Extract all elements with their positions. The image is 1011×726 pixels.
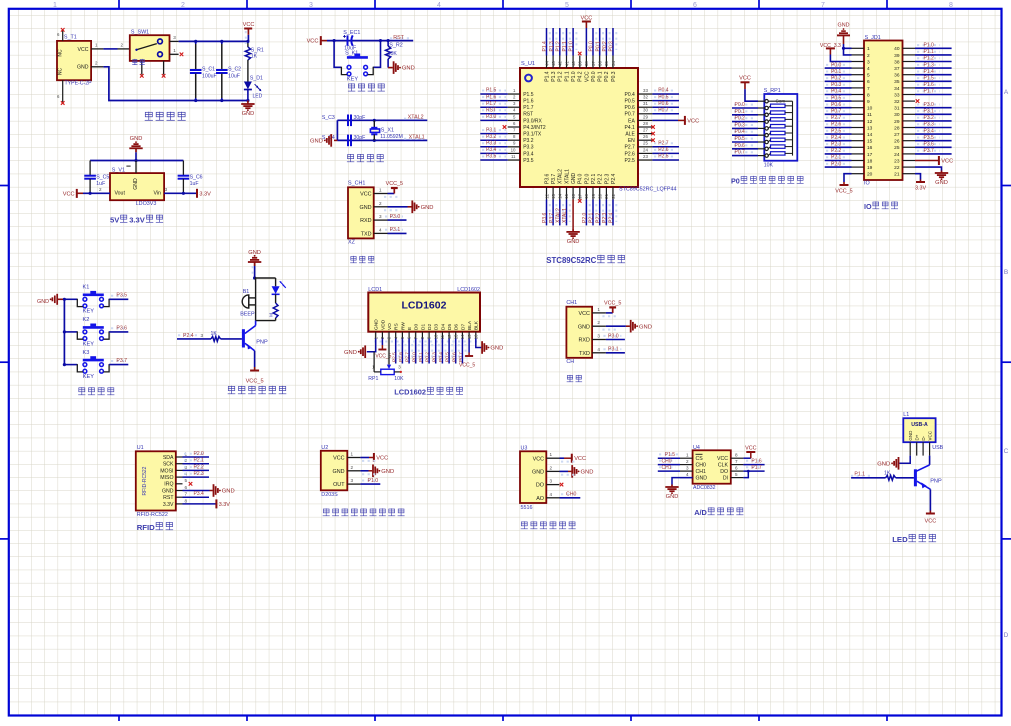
svg-text:24: 24 — [643, 147, 648, 152]
svg-text:P3.5: P3.5 — [924, 135, 935, 141]
svg-text:5: 5 — [867, 73, 870, 79]
svg-text:21: 21 — [894, 172, 900, 178]
svg-text:GND: GND — [310, 139, 323, 145]
svg-text:P3.1: P3.1 — [390, 227, 401, 233]
svg-text:P3.7: P3.7 — [551, 174, 557, 185]
svg-text:Vout: Vout — [115, 191, 126, 197]
svg-text:P3.3: P3.3 — [924, 122, 935, 128]
svg-text:5V: 5V — [110, 216, 120, 225]
svg-text:100uF: 100uF — [202, 73, 217, 79]
svg-text:38: 38 — [894, 59, 900, 65]
svg-text:GND: GND — [162, 488, 174, 494]
svg-text:10uF: 10uF — [228, 73, 240, 79]
svg-text:P2.3: P2.3 — [604, 174, 610, 185]
svg-text:4: 4 — [867, 66, 870, 72]
svg-text:K3: K3 — [83, 350, 90, 356]
svg-text:P1.1: P1.1 — [924, 49, 935, 55]
svg-text:P1.4: P1.4 — [924, 69, 935, 75]
svg-text:P0.7: P0.7 — [458, 352, 464, 362]
svg-text:VCC: VCC — [941, 159, 953, 165]
svg-text:2: 2 — [550, 465, 553, 470]
svg-text:P2.4: P2.4 — [611, 173, 617, 184]
svg-text:GND: GND — [935, 180, 948, 186]
svg-text:1uF: 1uF — [190, 181, 199, 187]
svg-text:GND: GND — [838, 22, 850, 28]
svg-text:10K: 10K — [394, 376, 404, 382]
svg-text:26: 26 — [894, 139, 900, 145]
svg-text:D0: D0 — [414, 324, 420, 330]
svg-text:P3.0: P3.0 — [924, 102, 935, 108]
svg-text:2: 2 — [95, 60, 98, 65]
svg-text:VCC: VCC — [243, 22, 255, 28]
svg-text:XTAL2: XTAL2 — [558, 169, 564, 184]
svg-text:P0.6: P0.6 — [625, 105, 636, 111]
svg-text:11: 11 — [440, 334, 445, 339]
svg-text:P3.2: P3.2 — [523, 138, 534, 144]
svg-text:7: 7 — [735, 459, 738, 464]
svg-text:P0.1: P0.1 — [595, 41, 601, 52]
svg-text:VCC: VCC — [579, 311, 590, 317]
svg-text:P3.5: P3.5 — [523, 158, 534, 164]
svg-text:2: 2 — [181, 2, 185, 9]
svg-text:BLK: BLK — [474, 320, 480, 330]
svg-text:VCC_5: VCC_5 — [604, 301, 621, 307]
svg-text:RW: RW — [400, 322, 406, 330]
svg-text:P2.0: P2.0 — [582, 212, 588, 223]
svg-text:31: 31 — [894, 106, 900, 112]
svg-text:D1: D1 — [420, 324, 426, 330]
svg-text:1K: 1K — [211, 331, 218, 337]
svg-text:7: 7 — [867, 86, 870, 92]
svg-text:A: A — [1004, 89, 1009, 96]
svg-text:18: 18 — [584, 193, 589, 198]
svg-text:P1.0: P1.0 — [368, 478, 379, 484]
svg-text:2: 2 — [597, 320, 600, 325]
svg-text:VCC_5: VCC_5 — [459, 363, 475, 369]
svg-text:CH: CH — [566, 359, 574, 365]
svg-text:P0.0: P0.0 — [831, 62, 842, 68]
svg-text:P1.6: P1.6 — [924, 82, 935, 88]
svg-text:VCC: VCC — [745, 446, 756, 452]
svg-text:IRQ: IRQ — [164, 482, 173, 488]
svg-text:32: 32 — [894, 99, 900, 105]
svg-text:4: 4 — [550, 492, 553, 497]
svg-text:38: 38 — [584, 61, 589, 66]
svg-text:P3.2: P3.2 — [924, 115, 935, 121]
svg-text:P1.6: P1.6 — [523, 99, 534, 105]
svg-text:GND: GND — [877, 461, 890, 467]
svg-text:NC: NC — [58, 68, 64, 76]
svg-text:P1.1: P1.1 — [564, 71, 570, 82]
svg-text:P2.4: P2.4 — [183, 333, 194, 339]
svg-text:3: 3 — [597, 334, 600, 339]
svg-text:P2.5: P2.5 — [658, 154, 669, 160]
svg-text:CS: CS — [696, 456, 704, 462]
svg-text:4: 4 — [379, 227, 382, 232]
svg-text:5: 5 — [185, 478, 188, 483]
svg-text:VCC_5: VCC_5 — [386, 181, 403, 187]
svg-text:CH1: CH1 — [696, 469, 706, 475]
svg-text:XTAL1: XTAL1 — [562, 208, 568, 223]
svg-text:8: 8 — [185, 498, 188, 503]
svg-text:P0.7: P0.7 — [658, 108, 669, 114]
svg-text:LED: LED — [892, 535, 908, 544]
svg-text:19: 19 — [867, 165, 873, 171]
svg-text:LDO3V3: LDO3V3 — [136, 201, 157, 207]
svg-text:P3.7: P3.7 — [549, 212, 555, 223]
svg-text:3.3V: 3.3V — [915, 185, 926, 191]
svg-text:VCC: VCC — [333, 456, 344, 462]
svg-text:7: 7 — [185, 492, 188, 497]
svg-text:VCC: VCC — [580, 15, 592, 21]
svg-text:P2.6: P2.6 — [625, 151, 636, 157]
svg-text:BLA: BLA — [467, 320, 473, 330]
svg-text:P0.4: P0.4 — [438, 352, 444, 362]
svg-text:RS: RS — [394, 323, 400, 330]
svg-text:SDA: SDA — [163, 455, 174, 461]
svg-text:P3.0: P3.0 — [486, 114, 497, 120]
svg-text:P3.5: P3.5 — [486, 154, 497, 160]
svg-text:GND: GND — [242, 111, 255, 117]
svg-text:11.0592M: 11.0592M — [380, 134, 403, 140]
svg-text:S_C5: S_C5 — [96, 175, 109, 181]
svg-text:D+: D+ — [914, 434, 919, 440]
svg-text:TYPE-C-2P: TYPE-C-2P — [65, 81, 93, 87]
svg-text:P1.0: P1.0 — [571, 71, 577, 82]
svg-text:VCC: VCC — [687, 118, 699, 124]
svg-text:P3.6: P3.6 — [542, 212, 548, 223]
svg-text:CH0: CH0 — [662, 458, 672, 464]
svg-text:35: 35 — [894, 79, 900, 85]
svg-text:P2.5: P2.5 — [391, 352, 397, 362]
svg-text:P2.7: P2.7 — [658, 141, 669, 147]
svg-text:16: 16 — [867, 145, 873, 151]
svg-text:P1.7: P1.7 — [751, 465, 762, 471]
svg-text:15: 15 — [564, 193, 569, 198]
svg-text:13: 13 — [551, 193, 556, 198]
svg-text:P0.5: P0.5 — [831, 95, 842, 101]
svg-text:RST: RST — [393, 35, 404, 41]
svg-text:TXD: TXD — [579, 351, 590, 357]
svg-text:P0.7: P0.7 — [831, 109, 842, 115]
svg-text:XTAL2: XTAL2 — [408, 114, 424, 120]
svg-text:3: 3 — [550, 479, 553, 484]
svg-text:30pF: 30pF — [354, 135, 366, 141]
svg-text:P2.7: P2.7 — [831, 115, 842, 121]
svg-text:5516: 5516 — [521, 505, 533, 511]
svg-text:12: 12 — [867, 119, 873, 125]
svg-text:P4.2: P4.2 — [578, 71, 584, 82]
svg-text:20: 20 — [867, 172, 873, 178]
svg-text:S_D1: S_D1 — [250, 75, 263, 81]
svg-text:18: 18 — [867, 158, 873, 164]
svg-text:37: 37 — [894, 66, 900, 72]
svg-text:P2.2: P2.2 — [598, 173, 604, 184]
svg-text:MISO: MISO — [160, 475, 173, 481]
svg-text:P2.2: P2.2 — [595, 212, 601, 223]
svg-text:3: 3 — [379, 214, 382, 219]
svg-text:13: 13 — [453, 334, 458, 339]
svg-text:P0.3: P0.3 — [831, 82, 842, 88]
svg-text:P1.4: P1.4 — [542, 41, 548, 52]
svg-text:GND: GND — [344, 350, 357, 356]
svg-text:S_T1: S_T1 — [64, 35, 77, 41]
svg-text:P0.2: P0.2 — [425, 352, 431, 362]
svg-text:P2.5: P2.5 — [831, 128, 842, 134]
svg-text:C: C — [1004, 448, 1009, 455]
svg-text:3: 3 — [351, 478, 354, 483]
svg-text:P1.4: P1.4 — [544, 71, 550, 82]
svg-text:P3.4: P3.4 — [194, 491, 205, 497]
svg-text:1: 1 — [95, 42, 98, 47]
svg-text:P1.1: P1.1 — [854, 472, 865, 478]
svg-text:26: 26 — [643, 134, 648, 139]
svg-text:13: 13 — [867, 125, 873, 131]
svg-text:4: 4 — [437, 2, 441, 9]
svg-text:P4.0: P4.0 — [578, 174, 584, 185]
svg-text:2: 2 — [686, 459, 689, 464]
svg-text:XTAL1: XTAL1 — [564, 169, 570, 184]
svg-text:P0.5: P0.5 — [735, 136, 746, 142]
svg-text:P0.3: P0.3 — [609, 41, 615, 52]
svg-text:P0.2: P0.2 — [831, 76, 842, 82]
svg-text:MOSI: MOSI — [160, 468, 173, 474]
svg-text:1uF: 1uF — [96, 181, 105, 187]
svg-text:EN: EN — [628, 138, 635, 144]
svg-text:10K: 10K — [388, 51, 398, 57]
svg-text:P3.0/RX: P3.0/RX — [523, 118, 542, 124]
svg-text:D203S: D203S — [321, 492, 338, 498]
svg-text:44: 44 — [544, 61, 549, 66]
svg-text:S_R2: S_R2 — [389, 43, 403, 49]
svg-text:P3.2: P3.2 — [486, 134, 497, 140]
svg-text:P0.1: P0.1 — [735, 109, 746, 115]
svg-text:RXD: RXD — [579, 338, 590, 344]
svg-text:A/D: A/D — [694, 508, 707, 517]
svg-text:P1.7: P1.7 — [486, 101, 497, 107]
svg-text:P2.2: P2.2 — [194, 464, 205, 470]
svg-text:P3.1: P3.1 — [486, 127, 497, 133]
svg-text:P0.3: P0.3 — [611, 71, 617, 82]
svg-text:P1.3: P1.3 — [551, 71, 557, 82]
svg-text:VDD: VDD — [380, 319, 386, 330]
svg-text:2: 2 — [121, 42, 124, 47]
svg-text:1: 1 — [53, 2, 57, 9]
svg-text:KEY: KEY — [83, 309, 94, 315]
svg-text:LED: LED — [253, 94, 263, 100]
svg-text:VCC: VCC — [78, 47, 89, 53]
svg-text:RXD: RXD — [360, 218, 371, 224]
svg-text:8: 8 — [867, 92, 870, 98]
svg-text:P0.0: P0.0 — [591, 71, 597, 82]
svg-text:DI: DI — [723, 476, 728, 482]
svg-text:P0.6: P0.6 — [735, 143, 746, 149]
svg-text:D5: D5 — [447, 324, 453, 330]
svg-text:39: 39 — [894, 53, 900, 59]
svg-text:VCC: VCC — [360, 192, 371, 198]
svg-text:P1.5: P1.5 — [924, 76, 935, 82]
svg-text:P3.0: P3.0 — [608, 333, 619, 339]
svg-text:11: 11 — [867, 112, 872, 118]
svg-text:P0.2: P0.2 — [735, 116, 746, 122]
svg-text:34: 34 — [611, 61, 616, 66]
svg-text:30pF: 30pF — [354, 115, 366, 121]
svg-text:12: 12 — [544, 193, 549, 198]
svg-text:VO: VO — [387, 323, 393, 330]
svg-text:P3.1: P3.1 — [924, 109, 935, 115]
svg-text:VCC: VCC — [927, 430, 932, 440]
svg-text:23: 23 — [643, 154, 648, 159]
svg-text:17: 17 — [867, 152, 873, 158]
svg-text:P1.5: P1.5 — [665, 452, 676, 458]
svg-text:P2.5: P2.5 — [625, 158, 636, 164]
svg-text:VCC: VCC — [924, 519, 936, 525]
svg-text:2: 2 — [867, 53, 870, 59]
svg-text:P0.4: P0.4 — [625, 92, 636, 98]
svg-text:P1.3: P1.3 — [924, 62, 935, 68]
svg-text:P1.0: P1.0 — [924, 43, 935, 49]
svg-text:P2.6: P2.6 — [658, 147, 669, 153]
svg-text:40: 40 — [571, 61, 576, 66]
svg-text:CH0: CH0 — [566, 492, 576, 498]
svg-text:D: D — [1004, 632, 1009, 639]
svg-text:P0.0: P0.0 — [411, 352, 417, 362]
svg-text:P1.5: P1.5 — [486, 88, 497, 94]
svg-text:P3.6: P3.6 — [116, 325, 127, 331]
svg-text:3: 3 — [201, 333, 204, 338]
svg-text:P0.0: P0.0 — [735, 102, 746, 108]
svg-text:DO: DO — [536, 483, 544, 489]
svg-text:3: 3 — [686, 466, 689, 471]
svg-text:P3.1/TX: P3.1/TX — [523, 132, 542, 138]
svg-text:ALE: ALE — [625, 132, 635, 138]
svg-text:8: 8 — [949, 2, 953, 9]
svg-text:P3.4: P3.4 — [486, 147, 497, 153]
svg-text:4: 4 — [686, 472, 689, 477]
svg-text:IO: IO — [864, 202, 872, 211]
svg-text:16: 16 — [473, 334, 478, 339]
svg-text:P2.6: P2.6 — [398, 352, 404, 362]
svg-text:VCC: VCC — [307, 39, 319, 45]
svg-text:BEEP: BEEP — [240, 312, 255, 318]
svg-text:P0.3: P0.3 — [431, 352, 437, 362]
svg-text:P1.5: P1.5 — [523, 92, 534, 98]
svg-text:6: 6 — [867, 79, 870, 85]
svg-text:3: 3 — [165, 187, 168, 192]
svg-text:30: 30 — [894, 112, 900, 118]
svg-text:NC: NC — [58, 49, 64, 57]
svg-text:TXD: TXD — [361, 232, 372, 238]
svg-text:36: 36 — [894, 73, 900, 79]
svg-text:P3.3: P3.3 — [523, 145, 534, 151]
svg-text:GND: GND — [567, 239, 580, 245]
svg-text:P2.2: P2.2 — [831, 148, 842, 154]
svg-text:PNP: PNP — [930, 479, 942, 485]
svg-text:40: 40 — [894, 46, 900, 52]
svg-text:K1: K1 — [83, 285, 90, 291]
svg-text:K2: K2 — [83, 317, 90, 323]
svg-text:CH0: CH0 — [696, 463, 706, 469]
svg-text:GND: GND — [77, 65, 89, 71]
svg-text:P2.7: P2.7 — [625, 145, 636, 151]
svg-text:39: 39 — [578, 61, 583, 66]
svg-text:RFID: RFID — [137, 523, 155, 532]
svg-text:RFID-RC522: RFID-RC522 — [137, 512, 168, 518]
svg-text:STC89C52RC_LQFP44: STC89C52RC_LQFP44 — [619, 187, 677, 193]
svg-text:P2.0: P2.0 — [584, 173, 590, 184]
svg-text:3: 3 — [309, 2, 313, 9]
svg-text:P2.1: P2.1 — [589, 213, 595, 224]
svg-text:GND: GND — [421, 205, 434, 211]
svg-text:28: 28 — [643, 121, 648, 126]
svg-text:B: B — [1004, 269, 1008, 276]
svg-text:P3.6: P3.6 — [924, 142, 935, 148]
svg-text:P0.5: P0.5 — [445, 352, 451, 362]
svg-text:P2.1: P2.1 — [591, 174, 597, 185]
svg-text:P0.6: P0.6 — [658, 101, 669, 107]
svg-text:20: 20 — [598, 193, 603, 198]
svg-text:Vin: Vin — [153, 191, 161, 197]
svg-text:P0.5: P0.5 — [625, 99, 636, 105]
svg-text:S_C2: S_C2 — [228, 66, 241, 72]
svg-text:2: 2 — [99, 187, 102, 192]
svg-text:30: 30 — [643, 108, 648, 113]
svg-text:P2.1: P2.1 — [831, 155, 842, 161]
svg-text:P3.3: P3.3 — [486, 141, 497, 147]
svg-text:33: 33 — [894, 92, 900, 98]
svg-text:LCD1602: LCD1602 — [394, 388, 426, 397]
svg-text:P1.3: P1.3 — [549, 41, 555, 52]
svg-text:GND: GND — [490, 346, 503, 352]
svg-text:P1.1: P1.1 — [562, 41, 568, 52]
svg-text:DO: DO — [720, 469, 728, 475]
svg-text:U1: U1 — [137, 445, 144, 451]
svg-text:GND: GND — [578, 324, 590, 330]
svg-text:15: 15 — [467, 334, 472, 339]
svg-text:P1.0: P1.0 — [569, 41, 575, 52]
svg-text:M: M — [268, 313, 273, 317]
svg-text:16: 16 — [571, 193, 576, 198]
svg-text:1: 1 — [550, 452, 553, 457]
svg-text:P3.4: P3.4 — [523, 151, 534, 157]
svg-text:GND: GND — [37, 299, 49, 305]
svg-text:14: 14 — [460, 334, 465, 339]
svg-text:34: 34 — [894, 86, 900, 92]
svg-text:1: 1 — [379, 188, 382, 193]
svg-text:EA: EA — [628, 118, 635, 124]
svg-text:P1.6: P1.6 — [751, 459, 762, 465]
svg-text:S_CH1: S_CH1 — [348, 181, 365, 187]
svg-text:P0.4: P0.4 — [831, 89, 842, 95]
svg-text:RST: RST — [523, 112, 533, 118]
svg-text:Com: Com — [776, 99, 786, 104]
svg-text:VCC: VCC — [574, 456, 586, 462]
svg-text:22: 22 — [894, 165, 900, 171]
svg-text:1K: 1K — [251, 53, 258, 59]
svg-text:P2.7: P2.7 — [405, 352, 411, 362]
svg-text:STC89C52RC: STC89C52RC — [546, 256, 596, 265]
svg-text:P0.7: P0.7 — [625, 112, 636, 118]
svg-text:D-: D- — [921, 435, 926, 440]
svg-text:XTAL2: XTAL2 — [555, 208, 561, 223]
svg-text:VCC: VCC — [376, 456, 388, 462]
svg-text:10: 10 — [867, 106, 873, 112]
svg-text:10: 10 — [433, 334, 438, 339]
svg-text:3: 3 — [867, 59, 870, 65]
svg-text:P3.4: P3.4 — [924, 128, 935, 134]
svg-text:E: E — [407, 327, 413, 330]
svg-text:14: 14 — [558, 193, 563, 198]
